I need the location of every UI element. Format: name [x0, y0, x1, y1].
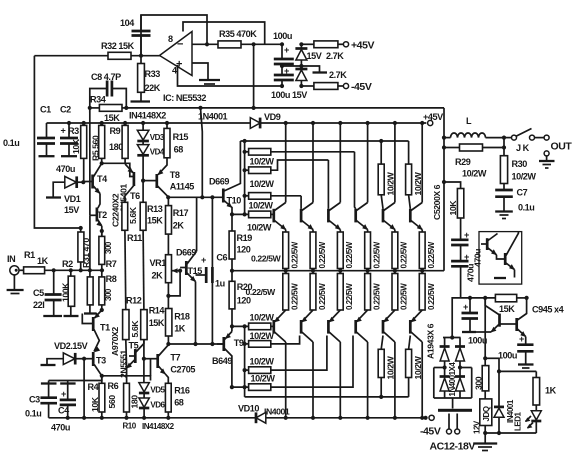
svg-text:R7: R7	[106, 259, 117, 269]
svg-text:10/2W: 10/2W	[250, 179, 275, 189]
svg-text:T7: T7	[170, 353, 180, 363]
svg-text:IN4148X2: IN4148X2	[129, 111, 166, 121]
svg-text:0.22/5W: 0.22/5W	[372, 241, 381, 268]
node: VD2 / T3 base	[82, 357, 86, 361]
PNP output transistors Q7-Q12 A1943	[274, 320, 411, 334]
transistor T7 C2705	[142, 345, 196, 384]
svg-text:180: 180	[109, 142, 123, 152]
resistor R29 10/2W	[444, 144, 504, 179]
svg-text:104: 104	[120, 18, 135, 28]
svg-text:2.7K: 2.7K	[329, 70, 347, 80]
diode VD3	[137, 130, 165, 142]
svg-text:15K: 15K	[149, 318, 165, 328]
collector risers from +45V rail	[275, 121, 425, 211]
resistor R30 10/2W	[500, 156, 536, 190]
rail -45V right part	[266, 417, 426, 419]
svg-text:R9: R9	[110, 126, 121, 136]
collector drops to -45V rail PNP	[275, 332, 425, 420]
svg-text:C3: C3	[29, 395, 40, 405]
svg-text:R19: R19	[237, 233, 253, 243]
svg-text:0.22/5W: 0.22/5W	[427, 283, 436, 310]
svg-text:560: 560	[107, 395, 117, 409]
flyback diode IN4001	[494, 399, 523, 433]
svg-text:0.22/5W: 0.22/5W	[345, 241, 354, 268]
svg-text:+45V: +45V	[423, 112, 443, 122]
wire: base drop to NPN Q4	[355, 152, 356, 209]
wire: C1 C2 bottoms to lower bus	[46, 144, 48, 156]
svg-text:0.22/5W: 0.22/5W	[345, 283, 354, 310]
svg-text:100u: 100u	[273, 31, 292, 41]
wire: VD2 node down to rail	[83, 359, 85, 418]
svg-text:10/2W: 10/2W	[250, 313, 275, 323]
node: R34 left	[88, 106, 92, 110]
svg-text:1N4001: 1N4001	[198, 112, 228, 122]
svg-text:68: 68	[174, 398, 184, 408]
svg-text:10/2W: 10/2W	[512, 172, 537, 182]
bridge diodes 1N4001 x4	[440, 347, 465, 399]
transistor T4 C2240	[83, 163, 120, 227]
wire: diode column	[141, 121, 145, 202]
resistor R4 10K	[88, 376, 105, 418]
resistor 10/2W vertical PNP 5	[378, 336, 395, 397]
svg-text:0.22/5W: 0.22/5W	[400, 283, 409, 310]
svg-text:100u 15V: 100u 15V	[271, 90, 307, 100]
svg-text:T4: T4	[97, 174, 108, 184]
zener VD2 15V	[41, 341, 88, 365]
bias transistor QB	[494, 232, 518, 278]
svg-text:10/2W: 10/2W	[250, 331, 275, 341]
ground under R33	[131, 100, 151, 102]
diode VD4	[137, 145, 165, 157]
node: opamp drop tap	[252, 106, 256, 110]
resistor R11 5.6K	[122, 202, 142, 309]
svg-text:100u: 100u	[468, 336, 487, 346]
resistor 15K bias	[452, 294, 529, 337]
svg-text:5.6K: 5.6K	[128, 206, 138, 224]
inductor L	[444, 116, 504, 138]
svg-text:VR1: VR1	[150, 258, 167, 268]
capacitor C1 0.1u	[3, 105, 55, 149]
NPN output transistors Q1-Q6 C5200	[274, 209, 411, 223]
svg-text:15V: 15V	[64, 205, 79, 215]
resistor R32 15K	[34, 41, 134, 59]
capacitor C3 0.1u	[25, 381, 57, 419]
svg-text:1K: 1K	[174, 324, 186, 334]
wire: NPN bias feed top	[240, 140, 408, 142]
capacitor 100u upper supply	[273, 31, 294, 68]
resistor 2.7K lower	[301, 70, 347, 89]
svg-text:470u: 470u	[51, 423, 70, 433]
resistor R5 560	[91, 121, 105, 165]
svg-text:R30: R30	[512, 159, 528, 169]
resistor R13 15K	[140, 202, 163, 309]
svg-text:2K: 2K	[173, 221, 185, 231]
svg-text:+: +	[519, 334, 524, 344]
svg-text:10/2W: 10/2W	[386, 171, 396, 195]
resistor 10/2W vertical NPN 6	[406, 141, 423, 209]
node: T3 collector	[100, 374, 104, 378]
svg-text:+: +	[201, 255, 206, 265]
relay JDQ 12V	[472, 399, 492, 434]
svg-text:+: +	[463, 302, 468, 312]
wire: relay top node to flyback branch	[485, 357, 499, 359]
svg-text:10/2W: 10/2W	[462, 169, 487, 179]
svg-text:10/2W: 10/2W	[250, 157, 275, 167]
capacitor 470u lower	[451, 249, 482, 298]
resistor R1 1K	[19, 250, 102, 274]
wire: base drop to NPN Q3	[327, 160, 329, 209]
svg-text:VD10: VD10	[238, 404, 259, 414]
ground at op-amp + input	[199, 80, 220, 84]
capacitor 100u right	[498, 334, 534, 368]
svg-text:2K: 2K	[152, 271, 164, 281]
svg-text:470u: 470u	[56, 164, 75, 174]
wire: feedback bus left segment	[34, 56, 80, 228]
svg-text:D669: D669	[209, 177, 229, 187]
svg-text:R10: R10	[123, 422, 137, 431]
svg-text:0.1u: 0.1u	[3, 138, 19, 148]
svg-text:R33: R33	[145, 69, 161, 79]
node: T10 base tap on bus	[198, 106, 202, 110]
svg-text:R13: R13	[147, 204, 163, 214]
node: T8 collector	[166, 195, 170, 199]
svg-text:VD4: VD4	[150, 148, 165, 157]
resistor R33 22K	[138, 56, 161, 101]
svg-text:T6: T6	[130, 191, 140, 201]
emitter diagonals with arrows NPN	[275, 221, 423, 231]
svg-text:L: L	[466, 116, 472, 126]
node: output junction	[139, 54, 143, 58]
resistor R14 15K	[141, 306, 166, 383]
wire: T8 collector bus to T15	[168, 196, 223, 198]
capacitor C6 1u	[196, 197, 228, 344]
svg-text:12V: 12V	[472, 420, 481, 434]
svg-text:T8: T8	[170, 170, 180, 180]
svg-text:T2: T2	[97, 210, 107, 220]
resistor 10K bias tap	[444, 182, 464, 240]
svg-text:R32 15K: R32 15K	[101, 41, 135, 51]
resistor 10/2W base feed 1	[245, 149, 355, 167]
svg-text:VD3: VD3	[150, 133, 165, 142]
wire: lower stage bus	[102, 376, 151, 381]
wire: rail left drop	[46, 123, 48, 138]
svg-text:0.22/5W: 0.22/5W	[291, 283, 300, 310]
resistor R17 2K	[166, 197, 189, 254]
svg-text:+: +	[61, 126, 66, 136]
svg-text:R3: R3	[68, 126, 79, 136]
wire: op-amp output node to feedback top	[141, 15, 207, 56]
resistor R19 120	[229, 214, 281, 270]
svg-text:−: −	[177, 39, 183, 51]
svg-text:0.22/5W: 0.22/5W	[400, 241, 409, 268]
diode VD10 IN4001	[238, 404, 290, 424]
op-amp U1 NE5532	[160, 32, 207, 104]
diode VD9 1N4001	[198, 112, 281, 129]
resistor R20 120	[229, 271, 276, 327]
svg-text:JDQ: JDQ	[482, 406, 491, 421]
wire: PNP bias feed bottom	[245, 396, 409, 398]
resistor R8 300	[99, 270, 117, 310]
wire: PNP bias column left	[230, 324, 234, 328]
capacitor C7 0.1u	[495, 188, 534, 219]
node: inverting input	[205, 42, 209, 46]
svg-text:0.22/5W: 0.22/5W	[291, 241, 300, 268]
svg-text:68: 68	[174, 145, 184, 155]
wire: pin 8 supply	[183, 22, 265, 44]
svg-text:VD6: VD6	[150, 401, 165, 410]
svg-text:R12: R12	[126, 296, 142, 306]
svg-text:A1145: A1145	[170, 182, 194, 192]
svg-text:R29: R29	[455, 157, 471, 167]
capacitor C5 22I	[33, 270, 62, 316]
wire: output bus right side	[443, 108, 445, 271]
svg-text:T5: T5	[129, 341, 139, 351]
svg-text:C2: C2	[60, 105, 71, 115]
rail -45V left part	[49, 417, 256, 419]
transistor T10 D669	[201, 108, 242, 214]
svg-text:-45V: -45V	[420, 426, 441, 438]
resistor 10/2W base feed 4	[247, 211, 273, 232]
svg-text:+: +	[284, 45, 289, 55]
switch JK	[504, 129, 549, 154]
svg-text:0.1u: 0.1u	[518, 203, 534, 213]
resistor 1K	[533, 371, 557, 410]
wire: bias rail	[168, 343, 223, 345]
transistor T8 A1145	[143, 158, 194, 197]
resistor 10/2W vertical NPN 5	[378, 141, 395, 209]
svg-text:R15: R15	[173, 132, 189, 142]
resistor R15 68	[164, 121, 188, 158]
svg-text:120: 120	[237, 296, 251, 306]
svg-text:R17: R17	[173, 208, 189, 218]
LED LED1	[525, 411, 541, 433]
capacitor C4 470u	[51, 381, 76, 433]
capacitor C2 470u	[60, 105, 78, 144]
node: VD1 / T4 base	[81, 180, 85, 184]
svg-text:R1: R1	[24, 250, 35, 260]
diode VD6	[139, 393, 166, 418]
svg-text:0.1u: 0.1u	[25, 409, 41, 419]
resistor 10/2W PNP base feed 4	[230, 336, 353, 391]
svg-text:15K: 15K	[104, 113, 120, 123]
wire: NPN bias column	[244, 141, 246, 214]
wire: non-inverting input to ground	[192, 63, 208, 79]
svg-text:B649: B649	[212, 356, 232, 366]
svg-text:1u: 1u	[215, 279, 225, 289]
svg-text:R34: R34	[90, 95, 107, 105]
svg-text:VD1: VD1	[64, 194, 81, 204]
svg-text:IN4148X2: IN4148X2	[142, 422, 175, 431]
svg-text:22I: 22I	[33, 300, 44, 310]
transistor T15 D669	[176, 248, 202, 345]
wire: down to feedback bus	[253, 44, 255, 108]
svg-text:C1: C1	[40, 105, 51, 115]
svg-text:0.22/5W: 0.22/5W	[251, 254, 281, 264]
resistor 300	[473, 298, 489, 399]
ground mid supply	[313, 71, 328, 73]
wire: base drop to NPN Q2	[300, 196, 302, 209]
wire: C3 C4 top bus	[49, 376, 102, 381]
node: T10 emitter / R19 top	[230, 212, 234, 216]
transistor T2	[90, 184, 129, 271]
svg-text:10K: 10K	[71, 138, 81, 154]
resistor R31 470	[78, 228, 91, 270]
svg-text:R14: R14	[149, 306, 166, 316]
svg-text:C2705: C2705	[170, 365, 195, 375]
node: R34 right	[124, 106, 128, 110]
svg-text:15K: 15K	[147, 216, 163, 226]
svg-text:A1943X 6: A1943X 6	[426, 323, 436, 359]
svg-text:R6: R6	[108, 381, 119, 391]
svg-text:R18: R18	[174, 312, 190, 322]
potentiometer VR1 2K	[150, 255, 183, 309]
svg-text:R16: R16	[174, 386, 190, 396]
svg-text:0.22/5W: 0.22/5W	[318, 241, 327, 268]
svg-text:180: 180	[130, 395, 140, 409]
zener VD1 15V	[46, 176, 83, 215]
transistor T9 B649	[212, 326, 244, 387]
svg-text:+45V: +45V	[351, 40, 374, 52]
svg-text:10/2W: 10/2W	[413, 355, 423, 379]
resistor 10/2W base feed 3	[245, 193, 302, 211]
svg-text:1K: 1K	[545, 386, 557, 396]
svg-text:VD2.15V: VD2.15V	[54, 341, 88, 351]
svg-text:100u: 100u	[498, 351, 517, 361]
svg-text:J K: J K	[516, 143, 530, 153]
svg-text:1N4001X4: 1N4001X4	[448, 362, 457, 397]
resistor R16 68	[165, 383, 190, 418]
svg-text:10/2W: 10/2W	[250, 357, 275, 367]
bias transistor QA	[481, 234, 498, 256]
resistor R2 100K	[60, 259, 78, 316]
input jack IN	[7, 254, 24, 294]
bias transistor QD	[500, 298, 526, 345]
svg-text:IC: NE5532: IC: NE5532	[163, 93, 206, 103]
svg-text:15K: 15K	[499, 304, 515, 314]
wire: inverting input stub	[192, 43, 218, 45]
svg-text:+: +	[61, 389, 66, 399]
zener 15V lower	[295, 64, 307, 88]
wire: relay bottom bus	[485, 432, 536, 434]
svg-text:5.6K: 5.6K	[130, 320, 140, 338]
svg-text:15V: 15V	[307, 51, 322, 61]
capacitor 100u left	[462, 298, 487, 346]
bridge frame	[434, 368, 472, 399]
svg-text:R8: R8	[106, 274, 117, 284]
resistor R12 5.6K	[123, 296, 142, 384]
svg-text:-45V: -45V	[351, 81, 372, 93]
AC input terminals	[430, 414, 476, 453]
emitter resistors 0.22/5W upper row	[283, 230, 436, 271]
output bus	[232, 270, 444, 272]
resistor R34 15K	[90, 95, 127, 124]
svg-text:2.7K: 2.7K	[326, 51, 344, 61]
svg-text:10/2W: 10/2W	[386, 355, 396, 379]
svg-text:C5: C5	[33, 288, 44, 298]
ground relay bus	[473, 433, 497, 451]
svg-text:10/2W: 10/2W	[247, 223, 272, 233]
terminal +45V	[343, 40, 374, 52]
transistor T3	[84, 347, 106, 376]
resistor R3 10K	[68, 121, 87, 182]
svg-text:R11: R11	[127, 233, 142, 243]
svg-text:IN: IN	[7, 254, 15, 264]
capacitor 470u upper	[451, 230, 475, 282]
svg-text:C7: C7	[517, 188, 528, 198]
resistor 2.7K upper	[301, 41, 344, 61]
resistor R7 300	[99, 230, 117, 270]
svg-text:AC12-18V: AC12-18V	[430, 441, 476, 453]
resistor R18 1K	[166, 309, 190, 345]
resistor R6 560	[107, 381, 129, 418]
terminal -45V	[343, 81, 371, 93]
svg-text:R2: R2	[62, 259, 73, 269]
capacitor C8 4.7P	[90, 72, 127, 108]
transistor T5 2N5551	[119, 340, 144, 378]
resistor 10/2W base feed 2	[245, 160, 329, 189]
svg-text:VD5: VD5	[150, 386, 165, 395]
svg-text:LED1: LED1	[514, 412, 523, 432]
svg-text:22K: 22K	[145, 83, 161, 93]
emitter resistors 0.22/5W lower row	[283, 271, 436, 310]
svg-text:10/2W: 10/2W	[249, 201, 274, 211]
emitter diagonals with arrows PNP	[274, 310, 422, 322]
svg-text:0.22/5W: 0.22/5W	[246, 287, 276, 297]
resistor 10/2W PNP base feed 2	[245, 331, 300, 347]
svg-text:0.22/5W: 0.22/5W	[318, 283, 327, 310]
svg-text:OUT: OUT	[551, 141, 572, 153]
terminal OUT	[539, 141, 572, 169]
svg-text:T1: T1	[100, 323, 110, 333]
resistor 10/2W PNP base feed 3	[245, 336, 327, 374]
wire: output stub	[131, 55, 161, 57]
node: output node	[502, 136, 506, 140]
svg-text:R4: R4	[88, 382, 100, 392]
svg-text:10/2W: 10/2W	[251, 374, 276, 384]
svg-text:120: 120	[237, 245, 251, 255]
svg-text:8: 8	[168, 34, 173, 44]
wire: pin 4 supply	[178, 65, 283, 86]
svg-text:C6: C6	[216, 253, 227, 263]
svg-text:C945 x4: C945 x4	[532, 305, 565, 315]
resistor R9 180	[109, 121, 128, 164]
transistor T6	[102, 163, 140, 202]
svg-text:VD9: VD9	[264, 112, 281, 122]
rail +45V	[47, 112, 444, 126]
svg-text:T9: T9	[234, 338, 244, 348]
wire: mid node of supply caps	[282, 66, 320, 72]
wire: T4 emitter to T2 collector	[98, 194, 100, 209]
svg-text:C5200X 6: C5200X 6	[432, 184, 442, 220]
diode VD5	[139, 383, 166, 395]
resistor 10/2W PNP base feed 1	[249, 313, 275, 330]
svg-text:1K: 1K	[37, 256, 49, 266]
node: input wire junctions	[52, 268, 56, 272]
svg-text:0.22/5W: 0.22/5W	[427, 241, 436, 268]
svg-text:0.22/5W: 0.22/5W	[372, 283, 381, 310]
resistor R35 470K	[218, 29, 282, 48]
svg-text:470u: 470u	[473, 249, 483, 267]
bias transistor QC	[462, 298, 500, 333]
svg-text:T3: T3	[96, 356, 106, 366]
resistor at input pair tail	[84, 270, 97, 313]
wire: feedback bus to output bus	[126, 107, 444, 109]
thermal box outline for bias transistors	[479, 232, 522, 285]
zener 15V upper	[295, 42, 321, 66]
bridge rectifier top bar	[443, 335, 461, 346]
transistor T1 A970	[82, 308, 120, 356]
svg-text:R35 470K: R35 470K	[219, 29, 257, 39]
